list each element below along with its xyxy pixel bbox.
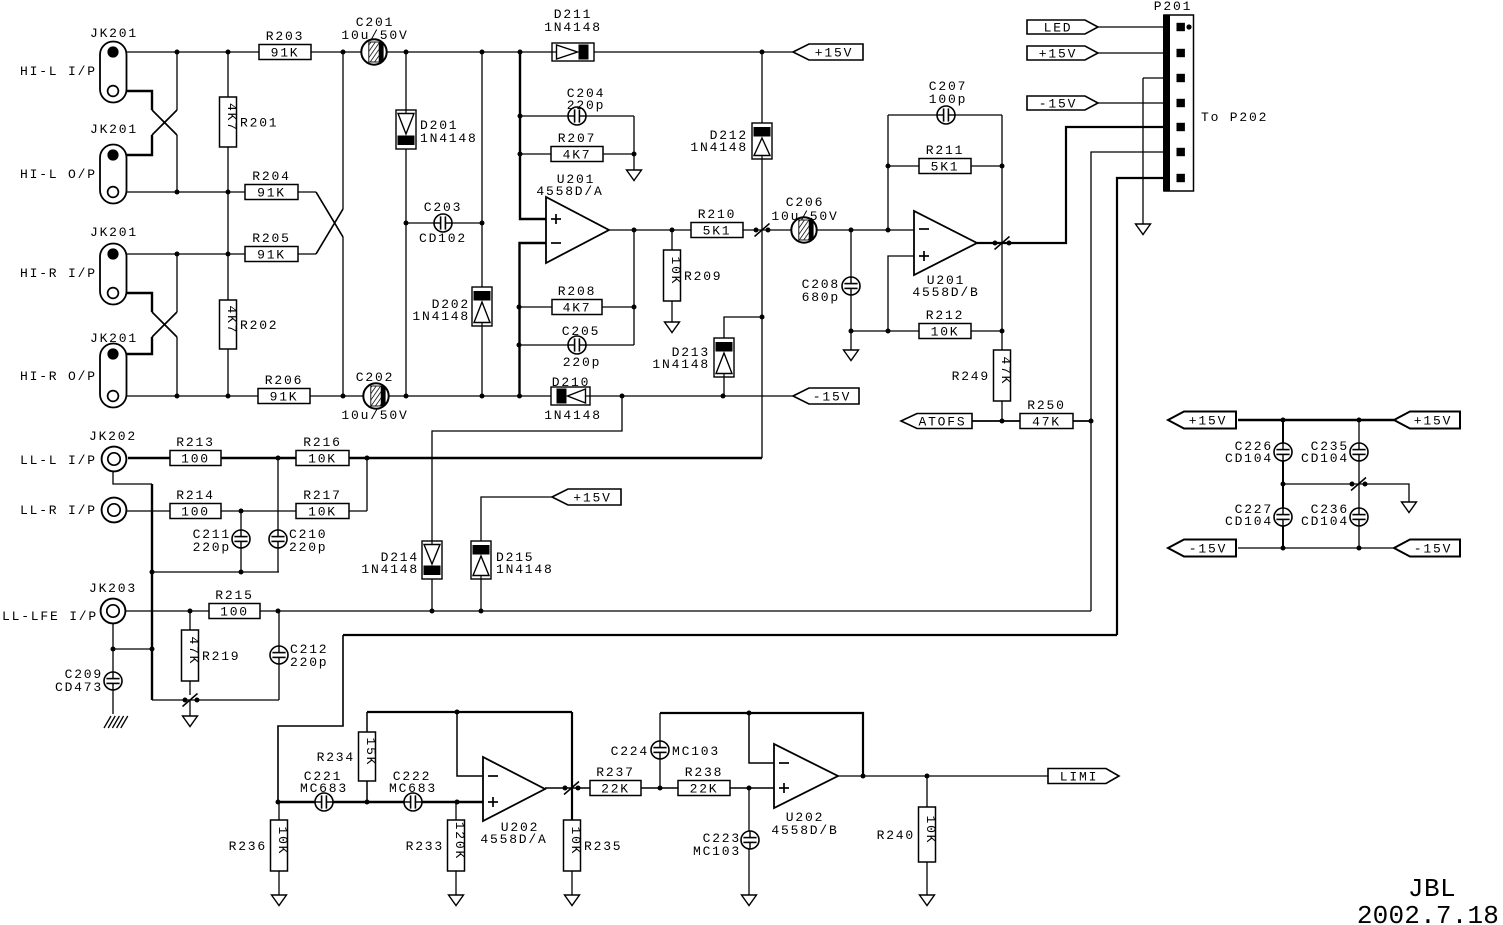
wire U202/A feedback top [367,711,572,713]
svg-text:+15V: +15V [1189,414,1227,429]
capacitor C209 [55,667,122,695]
capacitor C210 [269,527,327,555]
resistor R205 [245,231,298,263]
svg-text:100: 100 [181,452,210,467]
resistor R213 [170,435,221,467]
junction jog [995,237,1010,250]
capacitor C201 (electrolytic) [341,15,408,65]
svg-text:91K: 91K [257,186,286,201]
jack JK201 (HI-L I/P) [90,26,138,103]
svg-text:R212: R212 [926,308,964,323]
svg-text:10u/50V: 10u/50V [771,209,838,224]
ground arrow under R235 [565,895,580,906]
wire staircase to U202/A + input [278,635,343,802]
junction jog [755,224,770,237]
junction node (1002,421) [1000,419,1005,424]
resistor R209 [664,250,723,301]
svg-text:15K: 15K [363,737,378,766]
wire U201/A output line to U201/B - input [609,229,914,231]
wire R209 stubs [671,230,673,250]
junction node (519.5,396) [517,394,522,399]
svg-text:91K: 91K [270,390,299,405]
junction node (278,458) [276,456,281,461]
junction node (1359,548) [1357,546,1362,551]
wire R219 ground line [152,699,279,701]
wire U202/B - input [749,713,774,763]
svg-text:R240: R240 [877,828,915,843]
svg-text:HI-L O/P: HI-L O/P [20,167,97,182]
diode D201 [396,110,478,149]
svg-text:R201: R201 [240,116,278,131]
svg-text:220p: 220p [289,540,327,555]
svg-text:LL-R I/P: LL-R I/P [20,503,97,518]
wire C207 feedback [888,114,1002,116]
ground arrow under R233 [449,895,464,906]
wire D214 branch from -15V clamp [432,396,622,541]
junction node (995,243) [993,241,998,246]
wire P201 pin1 LED [1098,26,1164,28]
svg-text:4558D/B: 4558D/B [912,285,979,300]
junction node (888,230) [886,228,891,233]
resistor R202 [220,300,279,349]
junction node (481,611) [479,609,484,614]
svg-text:1N4148: 1N4148 [420,131,478,146]
power flag -15V (-15V right block R) [1394,540,1460,557]
svg-text:10K: 10K [923,815,938,844]
svg-text:22K: 22K [690,782,719,797]
junction node (457,712) [455,710,460,715]
wire x177 vertical (HI-L) [176,52,178,110]
power flag ATOFS (ATOFS) [901,414,972,430]
junction node (578,788) [576,786,581,791]
junction node (851,230) [849,228,854,233]
ground arrow right block [1402,502,1417,513]
junction node (1365,484) [1363,482,1368,487]
op-amp U202 4558D/B [771,744,838,838]
junction node (228,254) [226,252,231,257]
resistor R219 [182,630,241,681]
svg-text:R202: R202 [240,318,278,333]
junction node (762,52) [760,50,765,55]
capacitor C221 [300,769,348,811]
svg-text:To P202: To P202 [1201,110,1268,125]
wire P201 pin2 +15V [1098,52,1164,54]
wire crossover X1 (HI-L) [119,91,152,110]
wire R212 line [851,330,1002,332]
wire D213 branch [724,317,762,338]
wire C210/C211 bottom line [152,571,279,573]
svg-text:10K: 10K [931,325,960,340]
junction node (241,511) [239,509,244,514]
wire R211 to - input [887,166,889,230]
wire C208 stubs [850,230,852,277]
svg-text:R205: R205 [252,231,290,246]
capacitor C222 [389,769,437,811]
wire U202/A output to R237/R238 [545,787,590,789]
junction node (197,700) [195,698,200,703]
flag +15V (+15V pin2) [1027,46,1098,62]
svg-text:4558D/A: 4558D/A [480,832,547,847]
junction node (228,52) [226,50,231,55]
junction node (482,223) [480,221,485,226]
junction node (177,396) [175,394,180,399]
junction node (520,52) [518,50,523,55]
junction node (1283,484) [1281,482,1286,487]
svg-text:1N4148: 1N4148 [544,408,602,423]
wire R235 bottom stub [571,871,573,895]
wire U201/B + input [888,256,914,331]
svg-text:R204: R204 [252,169,290,184]
input labels [2,64,98,624]
resistor R215 [209,588,260,620]
ground arrow under R236 [272,895,287,906]
wire C224 stubs [659,759,661,788]
wire mid junction line to ground [1283,484,1409,502]
junction node (723,396) [721,394,726,399]
ground arrow under C223 [742,895,757,906]
svg-text:JK201: JK201 [90,122,138,137]
svg-text:R250: R250 [1027,398,1065,413]
svg-text:R238: R238 [685,765,723,780]
flag -15V (-15V pin4) [1027,96,1098,112]
resistor R211 [919,143,971,175]
junction node (863,776) [861,774,866,779]
junction node (241,572) [239,570,244,575]
wire U202/B output to LIMI [838,775,1048,777]
jack JK201 (HI-R O/P) [90,331,138,408]
junction node (1091,421) [1089,419,1094,424]
capacitor C227 [1225,502,1292,529]
junction node (762,317) [760,315,765,320]
capacitor C236 [1301,502,1368,529]
svg-text:10K: 10K [275,826,290,855]
wire to U201/A + input [520,52,546,219]
wire x152 vertical (thick) [151,484,153,700]
wire -15V rail (right block) [1238,547,1394,549]
resistor R238 [678,765,730,797]
junction node (482,396) [480,394,485,399]
capacitor C204 [567,86,605,125]
wire feedback vertical x1002 [1001,166,1003,331]
junction node (660,788) [658,786,663,791]
svg-text:91K: 91K [257,248,286,263]
jack LL-R I/P [102,498,127,523]
resistor R249 [952,350,1013,401]
svg-text:10K: 10K [308,505,337,520]
diode D213 [652,338,734,377]
op-amp U201 4558D/A [536,172,609,263]
wire U202/A + input line (thick) [278,801,483,803]
svg-text:4K7: 4K7 [224,305,239,334]
junction node (113,649) [111,647,116,652]
junction node (749,713) [747,711,752,716]
junction jog [183,694,198,707]
wire R233 stubs [455,802,457,820]
junction node (768,230) [766,228,771,233]
op-amp U202 4558D/A [480,757,547,847]
wire R219 stubs [189,611,191,630]
svg-text:C202: C202 [356,370,394,385]
svg-text:1N4148: 1N4148 [412,309,470,324]
capacitor C208 [802,277,860,305]
svg-text:4558D/B: 4558D/B [771,823,838,838]
diode D215 [471,541,554,579]
svg-text:CD104: CD104 [1225,514,1273,529]
flag LIMI (LIMI) [1048,769,1119,785]
svg-text:ATOFS: ATOFS [918,415,966,430]
connector P201 [1154,0,1268,191]
junction node (367,802) [365,800,370,805]
svg-text:1N4148: 1N4148 [544,20,602,35]
svg-text:R211: R211 [926,143,964,158]
junction node (185,700) [183,698,188,703]
svg-text:MC683: MC683 [389,781,437,796]
svg-text:R208: R208 [558,284,596,299]
svg-text:C203: C203 [424,200,462,215]
junction node (406,223) [404,221,409,226]
svg-text:47K: 47K [1032,415,1061,430]
svg-text:MC103: MC103 [693,844,741,859]
wire R208 feedback [519,306,634,308]
diode D202 [412,287,492,326]
resistor R237 [590,765,641,797]
capacitor C224 [611,741,720,759]
svg-text:LL-L I/P: LL-L I/P [20,453,97,468]
wire LL-R line [113,510,367,512]
svg-text:5K1: 5K1 [703,224,732,239]
wire D212 branch [761,52,763,123]
junction node (851,331) [849,329,854,334]
wire HI-R O/P line to -15V clamp line [113,395,551,397]
junction node (888,331) [886,329,891,334]
svg-text:C206: C206 [786,195,824,210]
earth ground under C209 [104,716,128,728]
svg-text:CD104: CD104 [1225,451,1273,466]
junction node (343,52) [341,50,346,55]
diode D212 [690,123,772,159]
power flag +15V (+15V top) [793,44,863,61]
resistor R201 [220,97,279,147]
svg-text:10u/50V: 10u/50V [341,408,408,423]
svg-text:47K: 47K [998,356,1013,385]
capacitor C235 [1301,439,1368,466]
resistor R233 [406,820,467,871]
resistor R217 [296,488,349,520]
wire R240 stubs [926,776,928,807]
wire U201/B output to P201 pin5 [977,127,1164,243]
power flag +15V (+15V right block R) [1394,412,1460,429]
svg-text:HI-L I/P: HI-L I/P [20,64,97,79]
flag LED (LED) [1027,20,1098,36]
svg-text:CD104: CD104 [1301,451,1349,466]
svg-text:4K7: 4K7 [563,301,592,316]
capacitor C212 [270,642,328,670]
resistor R234 [317,732,378,781]
wire HI-L I/P line (top) [113,51,552,53]
wire JK203 tail [112,623,114,672]
ground arrow under C208 [844,350,859,361]
wire U202/B feedback top [660,713,863,776]
resistor R240 [877,807,938,862]
svg-text:R236: R236 [229,839,267,854]
wire thick bus y635 [343,634,1117,636]
resistor R216 [296,435,349,467]
resistor R236 [229,820,290,871]
svg-text:+15V: +15V [573,491,611,506]
svg-text:100: 100 [181,505,210,520]
wire C212 stubs [278,664,280,700]
junction node (622,396) [620,394,625,399]
junction node (1283,420) [1281,418,1286,423]
junction node (520,154) [518,152,523,157]
svg-text:R203: R203 [266,29,304,44]
resistor R212 [919,308,971,340]
svg-text:4558D/A: 4558D/A [536,184,603,199]
junction node (634,230) [632,228,637,233]
capacitor C226 [1225,439,1292,466]
svg-text:120K: 120K [452,822,467,860]
power flag -15V (-15V mid) [793,388,859,405]
capacitor C205 [562,324,601,370]
svg-text:HI-R I/P: HI-R I/P [20,266,97,281]
junction node (672,230) [670,228,675,233]
wire LL-LFE line [113,610,1091,612]
power flag +15V (+15V D215) [552,489,621,506]
svg-text:220p: 220p [193,540,231,555]
junction node (406,52) [404,50,409,55]
wire x177 vertical (HI-R) [176,254,178,312]
svg-text:R206: R206 [265,373,303,388]
wire HI-R I/P line [113,253,245,255]
junction node (228,192) [226,190,231,195]
wire x762 vertical to LL sum line [761,230,763,458]
wire P201 pin3 ground [1143,77,1164,79]
ground arrow P201 pin3 [1136,224,1151,235]
svg-text:10K: 10K [568,826,583,855]
svg-text:-15V: -15V [813,390,851,405]
junction node (367,458) [365,456,370,461]
svg-text:1N4148: 1N4148 [652,357,710,372]
svg-text:LIMI: LIMI [1060,770,1098,785]
svg-text:5K1: 5K1 [931,160,960,175]
wire D215 branch to +15V [480,579,482,611]
svg-text:220p: 220p [290,655,328,670]
svg-text:CD102: CD102 [419,231,467,246]
wire JK202 tail [113,471,152,484]
wire R211 line [888,165,1002,167]
svg-text:JK203: JK203 [89,581,137,596]
junction node (749,788) [747,786,752,791]
capacitor C211 [193,527,250,555]
svg-text:D210: D210 [552,375,590,390]
junction node (177,254) [175,252,180,257]
wire x482 rail through D202 [481,52,483,287]
svg-text:1N4148: 1N4148 [690,140,748,155]
junction node (756,230) [754,228,759,233]
svg-text:R217: R217 [303,488,341,503]
junction node (432,611) [430,609,435,614]
svg-text:R237: R237 [596,765,634,780]
svg-text:R216: R216 [303,435,341,450]
svg-text:10K: 10K [668,256,683,285]
svg-text:2002.7.18: 2002.7.18 [1357,901,1499,925]
wire C205 feedback [519,344,634,346]
wire C210 stubs [277,458,279,530]
svg-text:LL-LFE I/P: LL-LFE I/P [2,609,98,624]
svg-text:MC683: MC683 [300,781,348,796]
svg-text:680p: 680p [802,290,840,305]
resistor R250 [1020,398,1073,430]
svg-text:100: 100 [220,605,249,620]
svg-text:1N4148: 1N4148 [496,562,554,577]
wire R249 stubs [1001,331,1003,350]
svg-text:R219: R219 [202,649,240,664]
svg-text:C224: C224 [611,744,649,759]
svg-text:JK201: JK201 [90,26,138,41]
svg-text:+15V: +15V [1039,47,1077,62]
svg-text:220p: 220p [567,98,605,113]
junction node (1283,548) [1281,546,1286,551]
wire R207 to ground [520,153,634,155]
wire P201 pin4 -15V [1098,102,1164,104]
junction node (634,307) [632,305,637,310]
junction node (520,116) [518,114,523,119]
capacitor C202 (electrolytic) [341,370,408,423]
jack JK201 (HI-R I/P) [90,225,138,305]
svg-text:JK201: JK201 [90,225,138,240]
resistor R203 [259,29,311,61]
resistor R206 [258,373,310,405]
junction jog [564,782,579,795]
junction node (1002,166) [1000,164,1005,169]
wire U202/A - input [457,712,483,776]
capacitor C207 [929,79,967,124]
svg-text:220p: 220p [563,355,601,370]
wire ATOFS line [972,420,1020,422]
junction node (1359,420) [1357,418,1362,423]
diode D214 [361,541,442,579]
wire C203 link [406,222,482,224]
svg-text:R213: R213 [176,435,214,450]
junction node (888,166) [886,164,891,169]
wire crossover X2 (HI-R) [119,293,152,312]
diode D210 [544,375,602,423]
wire x1283 caps chain [1282,420,1284,548]
wire R236 stubs [278,802,280,820]
svg-text:P201: P201 [1154,0,1192,14]
junction node (177,192) [175,190,180,195]
wire C211 stubs [240,511,242,530]
junction node (482,52) [480,50,485,55]
junction node (278,611) [276,609,281,614]
svg-text:JBL: JBL [1408,874,1456,904]
junction node (406,396) [404,394,409,399]
svg-text:R233: R233 [406,839,444,854]
junction node (190,611) [188,609,193,614]
capacitor C203 [419,200,467,246]
wire LL summed line (thick) [128,457,762,459]
diode D211 [544,7,602,61]
svg-text:R214: R214 [176,488,214,503]
junction node (343,396) [341,394,346,399]
junction node (927,776) [925,774,930,779]
wire +15V rail (right block) [1238,419,1394,422]
svg-text:10K: 10K [308,452,337,467]
svg-text:HI-R O/P: HI-R O/P [20,369,97,384]
svg-text:R235: R235 [584,839,622,854]
wire R234 stubs [366,712,368,732]
resistor R210 [691,207,743,239]
